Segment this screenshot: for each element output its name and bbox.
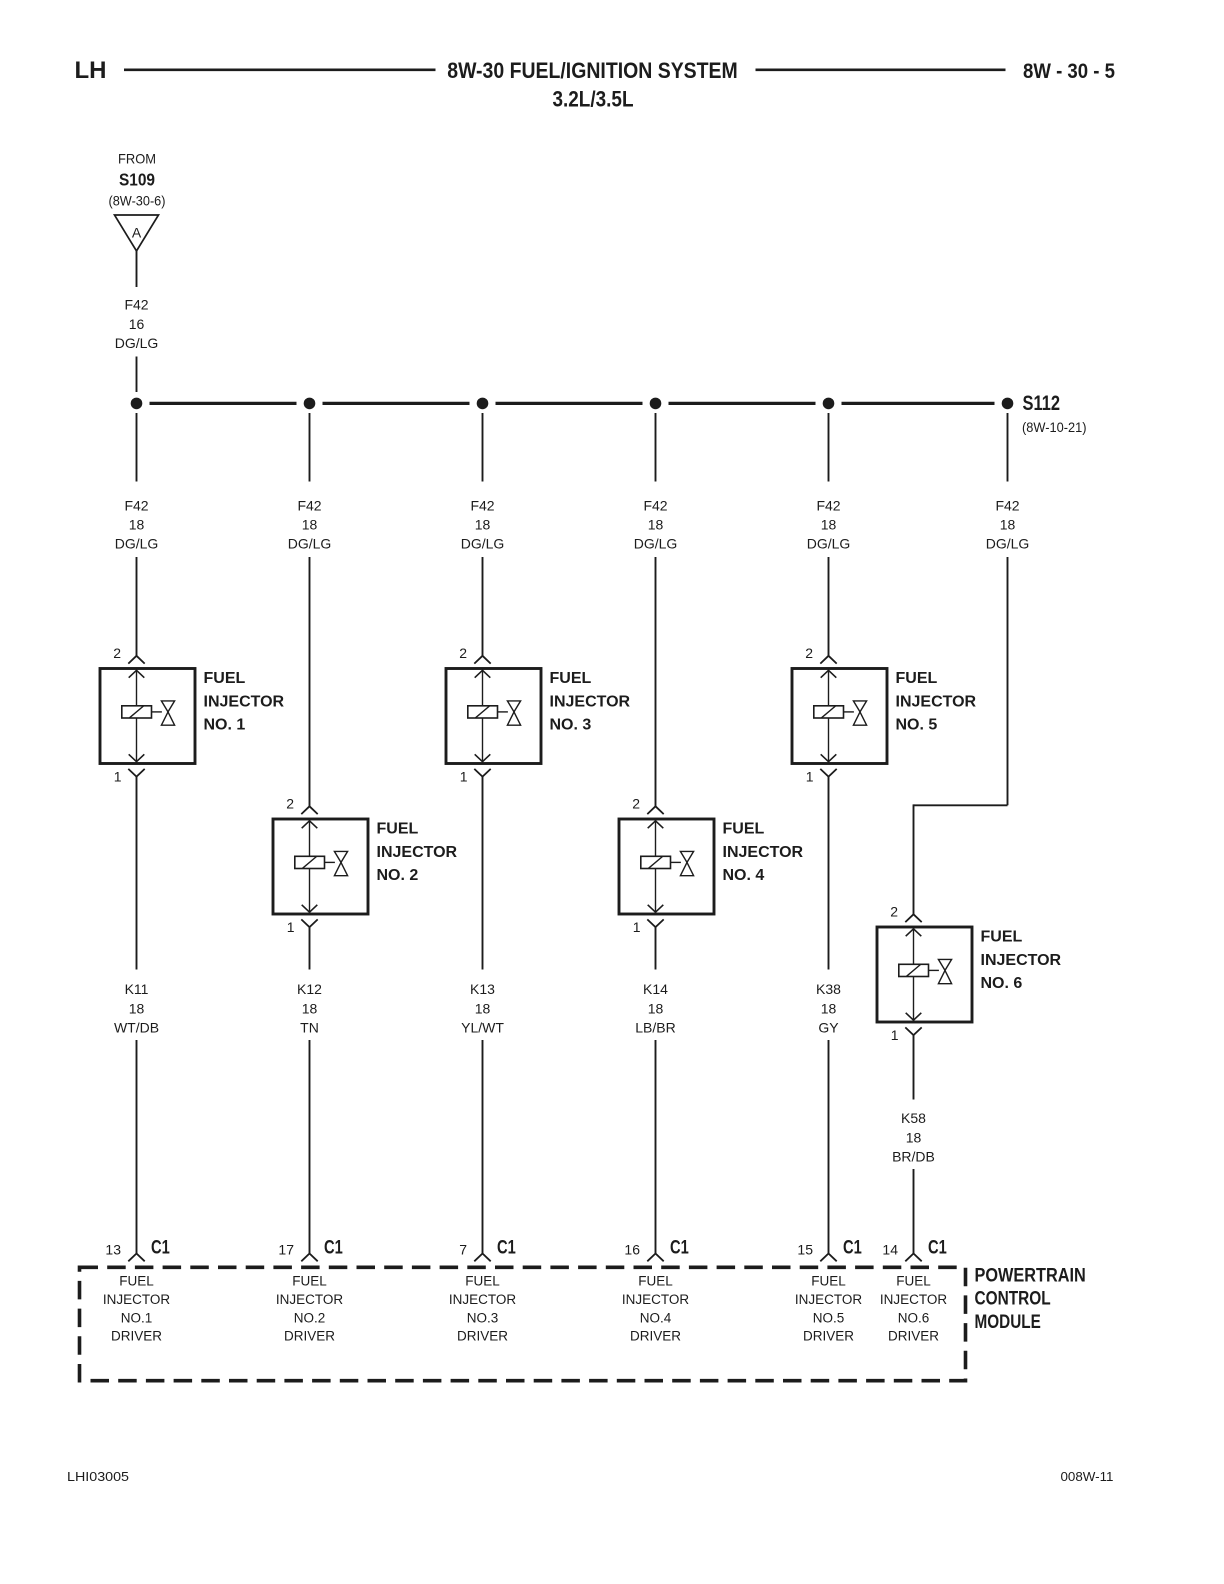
svg-text:NO.1: NO.1 [121,1310,153,1325]
svg-text:(8W-10-21): (8W-10-21) [1022,419,1087,435]
svg-text:2: 2 [805,645,813,661]
svg-text:FUEL: FUEL [896,1274,931,1289]
svg-text:FUEL: FUEL [981,929,1023,946]
svg-text:16: 16 [624,1242,640,1258]
injector 1 internal top arrow [129,670,145,677]
injector 6 coil diagonal [907,965,921,977]
bus wire segment 4 [669,402,816,405]
wire drop 1 from splice [136,413,138,482]
pin 1 connector fork injector 6 [905,1027,921,1035]
PCM text fuel injector no.2 driver [276,1274,344,1344]
pin 1 connector fork injector 3 [474,769,490,777]
label POWERTRAIN CONTROL MODULE [975,1265,1086,1333]
svg-text:DRIVER: DRIVER [803,1329,854,1344]
wire drop 4 from splice [655,413,657,482]
label FUEL INJECTOR NO. 1 [204,670,285,734]
splice junction dot 6 [1002,398,1014,410]
svg-text:1: 1 [633,919,641,935]
wire col 1 to injector 1 [136,557,138,656]
fuel injector no. 6 box [877,927,972,1022]
wire K11 lower segment [136,1040,138,1253]
svg-text:MODULE: MODULE [975,1312,1041,1333]
injector 3 coil diagonal [476,706,490,718]
svg-text:18: 18 [475,517,491,533]
injector 4 link to valve [671,861,681,863]
svg-text:18: 18 [648,1001,664,1017]
header rule right [756,69,1006,72]
svg-text:K14: K14 [643,981,668,997]
svg-text:INJECTOR: INJECTOR [896,693,977,710]
wire K14 upper segment [655,927,657,970]
injector 3 link to valve [498,711,508,713]
svg-text:DRIVER: DRIVER [284,1329,335,1344]
PCM text fuel injector no.5 driver [795,1274,863,1344]
svg-text:16: 16 [129,316,145,332]
splice junction dot 2 [304,398,316,410]
svg-text:2: 2 [113,645,121,661]
injector 5 valve nozzle symbol [853,701,866,712]
wire drop 3 from splice [482,413,484,482]
svg-text:INJECTOR: INJECTOR [377,844,458,861]
connector C1 fork pin 7 [474,1254,490,1262]
injector 2 valve nozzle symbol [334,851,347,862]
connector C1 fork pin 15 [820,1254,836,1262]
svg-text:TN: TN [300,1020,319,1036]
svg-text:K12: K12 [297,981,322,997]
injector 2 internal bottom arrow [302,905,318,912]
injector 4 internal top arrow [648,821,664,828]
svg-text:K58: K58 [901,1110,926,1126]
injector 2 internal top arrow [302,821,318,828]
svg-text:FROM: FROM [118,150,156,166]
injector 1 internal bottom arrow [129,754,145,761]
svg-text:C1: C1 [928,1238,947,1259]
svg-text:DG/LG: DG/LG [288,536,332,552]
svg-text:K38: K38 [816,981,841,997]
svg-text:13: 13 [105,1242,121,1258]
connector C1 fork pin 14 [905,1254,921,1262]
injector 2 solenoid coil [295,856,325,868]
svg-text:K13: K13 [470,981,495,997]
svg-text:NO.2: NO.2 [294,1310,326,1325]
wire K13 upper segment [482,776,484,969]
splice junction dot 1 [131,398,143,410]
wire col 6 horizontal jog [914,804,1008,806]
svg-text:18: 18 [129,517,145,533]
pin 1 connector fork injector 5 [820,769,836,777]
svg-text:INJECTOR: INJECTOR [449,1292,517,1307]
wire K12 upper segment [309,927,311,970]
pin 2 connector fork injector 3 [474,656,490,664]
splice junction dot 3 [477,398,489,410]
injector 6 link to valve [929,969,939,971]
svg-text:FUEL: FUEL [465,1274,500,1289]
wire col 3 to injector 3 [482,557,484,656]
svg-text:C1: C1 [670,1238,689,1259]
pin 2 connector fork injector 1 [128,656,144,664]
injector 6 internal bottom arrow [906,1013,922,1020]
injector 4 internal conductor [655,821,657,913]
injector 1 solenoid coil [122,706,152,718]
wire to splice S112 [136,357,138,393]
injector 1 coil diagonal [130,706,144,718]
injector 3 solenoid coil [468,706,498,718]
wire K58 lower segment [913,1169,915,1253]
pin 2 connector fork injector 5 [820,656,836,664]
svg-text:DG/LG: DG/LG [634,536,678,552]
injector 1 internal conductor [136,670,138,762]
svg-text:BR/DB: BR/DB [892,1149,935,1165]
wire K13 lower segment [482,1040,484,1253]
svg-text:INJECTOR: INJECTOR [622,1292,690,1307]
wire col 4 to injector 4 [655,557,657,806]
wire K14 lower segment [655,1040,657,1253]
svg-text:1: 1 [287,919,295,935]
svg-text:DG/LG: DG/LG [115,536,159,552]
injector 3 internal conductor [482,670,484,762]
PCM text fuel injector no.1 driver [103,1274,171,1344]
wire drop 5 from splice [828,413,830,482]
svg-text:INJECTOR: INJECTOR [981,952,1062,969]
svg-text:DG/LG: DG/LG [115,335,159,351]
connector C1 fork pin 16 [647,1254,663,1262]
injector 5 internal top arrow [821,670,837,677]
injector 1 valve nozzle symbol [161,701,174,712]
svg-text:18: 18 [302,1001,318,1017]
svg-text:POWERTRAIN: POWERTRAIN [975,1265,1086,1286]
pin 2 connector fork injector 4 [647,806,663,814]
svg-text:008W-11: 008W-11 [1061,1469,1114,1484]
svg-text:18: 18 [1000,517,1016,533]
powertrain control module dashed box [80,1267,966,1380]
svg-text:LB/BR: LB/BR [635,1020,675,1036]
svg-text:DG/LG: DG/LG [807,536,851,552]
injector 2 internal conductor [309,821,311,913]
svg-text:8W-30 FUEL/IGNITION SYSTEM: 8W-30 FUEL/IGNITION SYSTEM [447,58,738,83]
svg-text:(8W-30-6): (8W-30-6) [109,193,166,209]
injector 6 solenoid coil [899,964,929,976]
wire col 5 to injector 5 [828,557,830,656]
svg-text:DRIVER: DRIVER [888,1329,939,1344]
injector 5 coil diagonal [822,706,836,718]
svg-text:1: 1 [114,769,122,785]
svg-text:LH: LH [75,57,107,84]
wire col 6 to injector 6 [913,804,915,914]
svg-text:F42: F42 [643,498,667,514]
injector 5 link to valve [844,711,854,713]
splice junction dot 5 [823,398,835,410]
svg-text:FUEL: FUEL [292,1274,327,1289]
svg-text:NO. 2: NO. 2 [377,867,419,884]
bus wire segment 1 [150,402,297,405]
label FUEL INJECTOR NO. 5 [896,670,977,734]
svg-text:FUEL: FUEL [550,670,592,687]
svg-text:2: 2 [632,796,640,812]
svg-text:DRIVER: DRIVER [457,1329,508,1344]
wire K12 lower segment [309,1040,311,1253]
svg-text:S112: S112 [1023,392,1061,415]
svg-text:FUEL: FUEL [204,670,246,687]
svg-text:2: 2 [459,645,467,661]
pin 1 connector fork injector 2 [301,919,317,927]
svg-text:17: 17 [278,1242,294,1258]
svg-text:14: 14 [882,1242,898,1258]
svg-text:YL/WT: YL/WT [461,1020,504,1036]
svg-text:18: 18 [821,517,837,533]
injector 3 internal bottom arrow [475,754,491,761]
fuel injector no. 3 box [446,669,541,764]
fuel injector no. 4 box [619,819,714,914]
injector 2 link to valve [325,861,335,863]
injector 6 valve nozzle symbol [938,959,951,970]
PCM text fuel injector no.4 driver [622,1274,690,1344]
svg-text:LHI03005: LHI03005 [67,1469,129,1484]
PCM text fuel injector no.3 driver [449,1274,517,1344]
svg-text:7: 7 [459,1242,467,1258]
svg-text:NO.4: NO.4 [640,1310,672,1325]
svg-text:FUEL: FUEL [723,821,765,838]
wire K11 upper segment [136,776,138,969]
connector C1 fork pin 13 [128,1254,144,1262]
svg-text:F42: F42 [995,498,1019,514]
svg-text:18: 18 [302,517,318,533]
bus wire segment 3 [496,402,643,405]
pin 2 connector fork injector 2 [301,806,317,814]
wire K38 lower segment [828,1040,830,1253]
svg-text:F42: F42 [297,498,321,514]
svg-text:2: 2 [890,904,898,920]
header rule left [124,69,436,72]
svg-text:18: 18 [821,1001,837,1017]
label FUEL INJECTOR NO. 4 [723,821,804,885]
svg-text:18: 18 [129,1001,145,1017]
svg-text:NO. 3: NO. 3 [550,717,592,734]
svg-text:DRIVER: DRIVER [630,1329,681,1344]
wire col 2 to injector 2 [309,557,311,806]
svg-text:WT/DB: WT/DB [114,1020,159,1036]
fuel injector no. 2 box [273,819,368,914]
injector 6 internal top arrow [906,929,922,936]
svg-text:3.2L/3.5L: 3.2L/3.5L [553,87,634,112]
bus wire segment 5 [842,402,995,405]
svg-text:1: 1 [891,1027,899,1043]
injector 4 valve nozzle symbol [680,851,693,862]
injector 5 internal conductor [828,670,830,762]
bus wire segment 2 [323,402,470,405]
injector 3 valve nozzle symbol [507,701,520,712]
svg-text:F42: F42 [470,498,494,514]
injector 5 solenoid coil [814,706,844,718]
fuel injector no. 1 box [100,669,195,764]
svg-text:GY: GY [818,1020,839,1036]
svg-text:C1: C1 [497,1238,516,1259]
svg-text:INJECTOR: INJECTOR [103,1292,171,1307]
injector 1 link to valve [152,711,162,713]
svg-text:NO. 5: NO. 5 [896,717,938,734]
svg-text:DRIVER: DRIVER [111,1329,162,1344]
wire drop 6 from splice [1007,413,1009,482]
svg-text:FUEL: FUEL [119,1274,154,1289]
injector 5 internal bottom arrow [821,754,837,761]
label FUEL INJECTOR NO. 6 [981,929,1062,993]
wire drop 2 from splice [309,413,311,482]
splice junction dot 4 [650,398,662,410]
wire K38 upper segment [828,776,830,969]
svg-text:18: 18 [648,517,664,533]
svg-text:2: 2 [286,796,294,812]
injector 2 coil diagonal [303,857,317,869]
svg-text:INJECTOR: INJECTOR [880,1292,948,1307]
svg-text:INJECTOR: INJECTOR [723,844,804,861]
svg-text:NO. 6: NO. 6 [981,975,1023,992]
svg-text:NO.6: NO.6 [898,1310,930,1325]
svg-text:FUEL: FUEL [811,1274,846,1289]
injector 4 coil diagonal [649,857,663,869]
svg-text:CONTROL: CONTROL [975,1289,1052,1310]
svg-text:1: 1 [806,769,814,785]
svg-text:A: A [132,225,142,241]
wire K58 upper segment [913,1035,915,1099]
wire col 6 vertical run [1007,557,1009,805]
injector 4 solenoid coil [641,856,671,868]
svg-text:8W - 30 - 5: 8W - 30 - 5 [1023,60,1115,83]
svg-text:INJECTOR: INJECTOR [550,693,631,710]
PCM text fuel injector no.6 driver [880,1274,948,1344]
svg-text:18: 18 [906,1130,922,1146]
svg-text:NO.3: NO.3 [467,1310,499,1325]
svg-text:C1: C1 [151,1238,170,1259]
injector 4 internal bottom arrow [648,905,664,912]
injector 6 internal conductor [913,929,915,1021]
svg-text:DG/LG: DG/LG [461,536,505,552]
svg-text:1: 1 [460,769,468,785]
svg-text:INJECTOR: INJECTOR [204,693,285,710]
svg-text:DG/LG: DG/LG [986,536,1030,552]
injector 3 internal top arrow [475,670,491,677]
fuel injector no. 5 box [792,669,887,764]
svg-text:F42: F42 [816,498,840,514]
connector C1 fork pin 17 [301,1254,317,1262]
svg-text:K11: K11 [125,981,149,997]
svg-text:NO. 1: NO. 1 [204,717,246,734]
svg-text:NO.5: NO.5 [813,1310,845,1325]
svg-text:15: 15 [797,1242,813,1258]
svg-text:S109: S109 [119,170,155,190]
svg-text:INJECTOR: INJECTOR [276,1292,344,1307]
pin 1 connector fork injector 1 [128,769,144,777]
svg-text:18: 18 [475,1001,491,1017]
svg-text:INJECTOR: INJECTOR [795,1292,863,1307]
svg-text:FUEL: FUEL [638,1274,673,1289]
label FUEL INJECTOR NO. 3 [550,670,631,734]
svg-text:F42: F42 [124,498,148,514]
svg-text:F42: F42 [124,297,148,313]
svg-text:C1: C1 [843,1238,862,1259]
pin 1 connector fork injector 4 [647,919,663,927]
svg-text:FUEL: FUEL [896,670,938,687]
pin 2 connector fork injector 6 [905,914,921,922]
svg-text:C1: C1 [324,1238,343,1259]
svg-text:FUEL: FUEL [377,821,419,838]
off-page connector triangle A [115,215,159,251]
svg-text:NO. 4: NO. 4 [723,867,765,884]
wire from connector A [136,251,138,287]
label FUEL INJECTOR NO. 2 [377,821,458,885]
